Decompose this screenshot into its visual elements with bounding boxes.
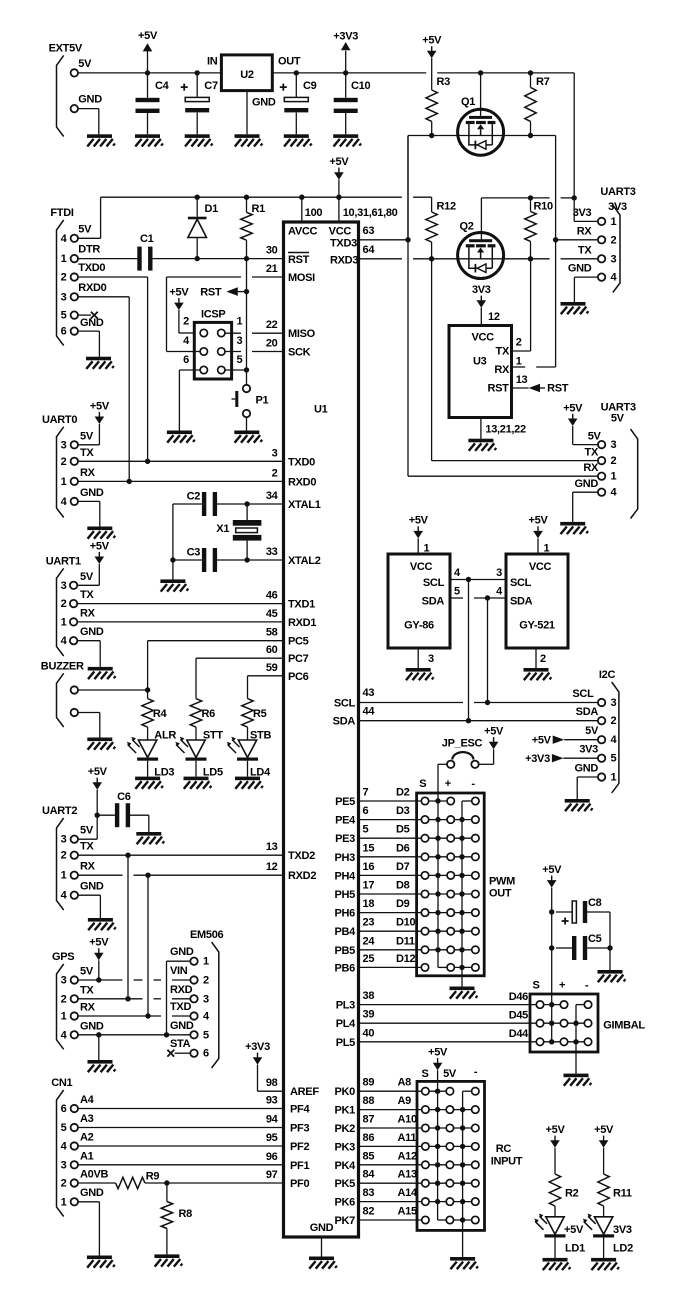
junction dot R10 on source line <box>528 256 533 261</box>
svg-text:UART3: UART3 <box>600 186 635 198</box>
svg-text:+5V: +5V <box>529 515 549 527</box>
svg-text:GND: GND <box>310 1222 334 1234</box>
ground GPS <box>88 1060 116 1072</box>
svg-text:PB5: PB5 <box>335 945 356 957</box>
svg-text:LD2: LD2 <box>613 1242 633 1254</box>
svg-text:18: 18 <box>363 898 375 910</box>
svg-text:UART2: UART2 <box>42 805 77 817</box>
svg-text:GY-521: GY-521 <box>519 620 555 632</box>
junction dot Q1 gate on rail <box>478 70 483 75</box>
svg-text:23: 23 <box>363 917 375 929</box>
wire UART1 GND to ground <box>77 640 100 642</box>
wire ICSP6 to ground <box>179 369 200 371</box>
junction dot XTAL1 at X1 <box>244 501 249 506</box>
wire UART2 GND to ground <box>78 894 100 896</box>
svg-text:5V: 5V <box>585 725 599 737</box>
svg-text:58: 58 <box>266 627 278 639</box>
wire Q1 source corner down at x555 <box>555 136 557 368</box>
wire ICSP5 to R1 column <box>225 369 247 371</box>
junction dot rail at C7 <box>195 70 200 75</box>
svg-text:UART0: UART0 <box>42 414 77 426</box>
svg-text:TXD0: TXD0 <box>288 456 315 468</box>
svg-text:Q2: Q2 <box>460 221 474 233</box>
svg-text:R5: R5 <box>253 708 267 720</box>
svg-text:84: 84 <box>363 1169 376 1181</box>
svg-text:LD1: LD1 <box>565 1242 585 1254</box>
svg-text:+5V: +5V <box>564 1224 584 1236</box>
svg-text:INPUT: INPUT <box>491 1155 523 1167</box>
svg-text:C9: C9 <box>303 80 317 92</box>
junction dot SCL bus <box>466 577 471 582</box>
wire PWM minus bus to ground <box>461 801 463 987</box>
svg-text:12: 12 <box>488 311 500 323</box>
svg-text:GND: GND <box>78 94 102 106</box>
junction dot C5 tap <box>549 945 554 950</box>
ground EXT5V <box>87 134 115 146</box>
junction dot GPS GND at flag column <box>96 1032 101 1037</box>
svg-text:RX: RX <box>80 607 96 619</box>
wire P1 to ground <box>246 417 248 430</box>
svg-text:UART1: UART1 <box>46 555 81 567</box>
svg-text:PL3: PL3 <box>336 1000 355 1012</box>
junction dot ICSP5 on R1 column <box>244 367 249 372</box>
svg-text:3: 3 <box>496 567 502 579</box>
svg-text:A10: A10 <box>398 1114 417 1126</box>
PWM header row D9 <box>425 912 475 914</box>
wire R10 column down to U3 TX <box>530 259 532 351</box>
ground UART0 <box>87 527 115 539</box>
ground U3 <box>468 439 496 451</box>
svg-text:A14: A14 <box>398 1187 418 1199</box>
svg-text:S: S <box>419 778 426 790</box>
svg-text:86: 86 <box>363 1132 375 1144</box>
wire C6 to ground <box>128 814 149 816</box>
ground BUZZER <box>87 738 115 750</box>
svg-text:PK3: PK3 <box>335 1141 356 1153</box>
svg-text:A4: A4 <box>80 1094 95 1106</box>
svg-text:3: 3 <box>611 253 617 265</box>
svg-text:R11: R11 <box>613 1188 632 1200</box>
svg-text:SCK: SCK <box>288 347 311 359</box>
svg-text:1: 1 <box>611 772 617 784</box>
svg-text:6: 6 <box>61 1103 67 1115</box>
ground U2 <box>235 134 263 146</box>
svg-text:U1: U1 <box>314 404 328 416</box>
ground LD1 <box>543 1258 571 1270</box>
wire CN1 GND to ground <box>78 1201 99 1203</box>
wire U3 RX to x555 column <box>512 366 526 368</box>
junction dot GPS TX riser <box>125 996 130 1001</box>
junction dot buzzer R4 <box>145 687 150 692</box>
svg-text:TXD1: TXD1 <box>288 599 315 611</box>
svg-text:GND: GND <box>80 487 104 499</box>
svg-text:PK1: PK1 <box>335 1105 356 1117</box>
ground LD3 <box>135 777 163 789</box>
svg-text:D6: D6 <box>396 842 410 854</box>
svg-text:D5: D5 <box>396 824 410 836</box>
svg-text:RST: RST <box>288 254 310 266</box>
svg-text:5: 5 <box>237 354 243 366</box>
RC INPUT header row A11 <box>425 1145 475 1147</box>
LED LD1 <box>534 1214 565 1238</box>
svg-text:TXD: TXD <box>170 1001 191 1013</box>
svg-text:S: S <box>532 980 539 992</box>
svg-text:5V: 5V <box>80 571 94 583</box>
wire +5V to ICSP pin2 <box>178 310 180 333</box>
junction dot R7 on Q1 source line <box>528 133 533 138</box>
svg-text:A13: A13 <box>398 1169 417 1181</box>
svg-text:D45: D45 <box>509 1010 528 1022</box>
PWM header row D11 <box>425 949 475 951</box>
wire MISO line ICSP1 to U1 <box>225 332 241 334</box>
junction dot C6 tap <box>95 813 100 818</box>
svg-text:P1: P1 <box>256 395 269 407</box>
svg-text:SCL: SCL <box>572 688 594 700</box>
svg-text:RST: RST <box>547 382 569 394</box>
svg-text:+5V: +5V <box>329 156 349 168</box>
pin 1 of BUZZER <box>71 686 78 693</box>
svg-text:A9: A9 <box>398 1095 412 1107</box>
svg-text:SCL: SCL <box>423 577 445 589</box>
svg-text:5: 5 <box>454 585 460 597</box>
PWM header row D10 <box>425 930 475 932</box>
svg-text:C5: C5 <box>588 933 602 945</box>
svg-text:1: 1 <box>203 956 209 968</box>
wire +5V to R2 <box>554 1148 556 1174</box>
svg-text:20: 20 <box>266 338 278 350</box>
svg-text:PC6: PC6 <box>288 671 309 683</box>
svg-text:GND: GND <box>80 1020 104 1032</box>
junction dot AVCC on +5V rail <box>299 195 304 200</box>
svg-text:95: 95 <box>266 1132 278 1144</box>
svg-text:88: 88 <box>363 1095 375 1107</box>
RC INPUT header row A13 <box>425 1182 475 1184</box>
wire SCK line ICSP3 to U1 <box>225 351 241 353</box>
svg-text:R12: R12 <box>437 201 456 213</box>
svg-text:R7: R7 <box>536 76 550 88</box>
junction dot TXD0 riser <box>145 459 150 464</box>
svg-text:5: 5 <box>61 310 67 322</box>
svg-text:+: + <box>559 980 565 992</box>
svg-text:5V: 5V <box>80 825 94 837</box>
svg-text:3: 3 <box>61 834 67 846</box>
junction dot SCL line <box>485 700 490 705</box>
svg-text:A11: A11 <box>398 1132 417 1144</box>
wire A0VB to R9 <box>78 1182 116 1184</box>
wire SDA bus riser down <box>487 598 489 703</box>
svg-text:TX: TX <box>578 244 592 256</box>
svg-text:5V: 5V <box>443 1068 457 1080</box>
svg-text:SDA: SDA <box>576 706 599 718</box>
svg-text:MOSI: MOSI <box>288 272 315 284</box>
junction dot R1 on RST line <box>244 256 249 261</box>
svg-text:2: 2 <box>272 467 278 479</box>
wire GPS GND to ground <box>98 1035 100 1060</box>
svg-text:25: 25 <box>363 953 375 965</box>
svg-text:R8: R8 <box>179 1208 193 1220</box>
svg-text:SDA: SDA <box>422 595 445 607</box>
PWM header row D6 <box>425 856 475 858</box>
ground C5 <box>598 970 626 982</box>
svg-text:2: 2 <box>61 1178 67 1190</box>
svg-text:IN: IN <box>207 55 218 67</box>
junction dot x555 at UART3-3V3 RX row <box>553 237 558 242</box>
junction dot rail at C9 <box>294 70 299 75</box>
svg-text:+5V: +5V <box>484 726 504 738</box>
svg-text:3: 3 <box>237 335 243 347</box>
svg-text:R10: R10 <box>534 201 553 213</box>
svg-text:+3V3: +3V3 <box>245 1041 270 1053</box>
svg-text:3: 3 <box>61 439 67 451</box>
svg-text:3: 3 <box>428 653 434 665</box>
svg-text:85: 85 <box>363 1150 375 1162</box>
junction dot RXD2 GPS riser <box>145 873 150 878</box>
svg-text:+5V: +5V <box>428 1047 448 1059</box>
wire U3 TX up to Q2 source line <box>512 350 531 352</box>
junction dot R3 on Q1 source line <box>429 133 434 138</box>
ground UART1 <box>88 667 116 679</box>
svg-text:GPS: GPS <box>52 951 74 963</box>
header RC INPUT box <box>417 1081 485 1230</box>
junction dot rail at C10 <box>343 70 348 75</box>
wire +3V3 to U1 AREF <box>257 1065 259 1092</box>
svg-text:+5V: +5V <box>532 735 552 747</box>
svg-text:GND: GND <box>80 1187 104 1199</box>
wire BUZZER to PC5 line <box>78 689 148 691</box>
svg-text:1: 1 <box>61 476 67 488</box>
svg-text:FTDI: FTDI <box>50 207 73 219</box>
svg-text:R1: R1 <box>252 203 266 215</box>
wire gate line of Q2 <box>481 197 549 199</box>
PWM header row D5 <box>425 837 475 839</box>
wire GPS 5V row to EM506 VIN <box>99 979 123 981</box>
ground PWM OUT <box>450 987 478 999</box>
svg-text:2: 2 <box>61 598 67 610</box>
svg-text:PC7: PC7 <box>288 653 309 665</box>
wire +5V to R11 <box>603 1148 605 1174</box>
svg-text:+: + <box>445 778 451 790</box>
svg-text:1: 1 <box>516 355 522 367</box>
wire 3V3 to U3 VCC <box>480 308 482 326</box>
ground LD2 <box>591 1258 619 1270</box>
svg-text:S: S <box>421 1068 428 1080</box>
wire SCL line from U1 <box>359 702 464 704</box>
svg-text:U2: U2 <box>240 69 254 81</box>
svg-text:63: 63 <box>363 225 375 237</box>
svg-text:A3: A3 <box>80 1113 94 1125</box>
svg-text:3V3: 3V3 <box>472 284 491 296</box>
wire PC5 to buzzer junction <box>148 640 284 642</box>
svg-text:15: 15 <box>363 842 375 854</box>
junction dot gate line at 3V3 riser <box>572 195 577 200</box>
svg-text:87: 87 <box>363 1114 375 1126</box>
wire GIMBAL minus bus to ground <box>575 1005 577 1074</box>
svg-text:3V3: 3V3 <box>579 744 598 756</box>
svg-text:PF0: PF0 <box>290 1178 309 1190</box>
pin 5 GND of FTDI no-connect <box>71 311 78 318</box>
svg-text:97: 97 <box>266 1169 278 1181</box>
svg-text:43: 43 <box>363 687 375 699</box>
svg-text:A12: A12 <box>398 1150 417 1162</box>
svg-text:3V3: 3V3 <box>613 1224 632 1236</box>
ground C7 <box>185 134 213 146</box>
svg-text:13: 13 <box>266 841 278 853</box>
GIMBAL header row D44 <box>540 1041 588 1043</box>
wire GPS TX row to EM506 RXD <box>78 998 143 1000</box>
junction dot TXD3 line <box>405 237 410 242</box>
ground I2C <box>565 799 593 811</box>
svg-text:D1: D1 <box>205 203 219 215</box>
wire UART3-5V TX row <box>432 460 598 462</box>
svg-text:BUZZER: BUZZER <box>41 660 84 672</box>
svg-text:94: 94 <box>266 1114 279 1126</box>
svg-text:XTAL2: XTAL2 <box>288 555 321 567</box>
svg-text:RX: RX <box>80 861 96 873</box>
svg-text:PH4: PH4 <box>335 870 357 882</box>
PWM header row D8 <box>425 893 475 895</box>
wire A3 to U1 PF3 <box>78 1127 284 1129</box>
header PWM OUT box <box>417 793 485 976</box>
svg-text:1: 1 <box>61 616 67 628</box>
svg-text:64: 64 <box>363 244 376 256</box>
svg-text:3: 3 <box>61 1159 67 1171</box>
GIMBAL header row D46 <box>540 1004 564 1006</box>
svg-text:OUT: OUT <box>278 55 301 67</box>
svg-text:PK6: PK6 <box>335 1197 356 1209</box>
svg-text:EM506: EM506 <box>190 929 224 941</box>
svg-text:PK2: PK2 <box>335 1123 356 1135</box>
svg-text:R6: R6 <box>202 708 216 720</box>
svg-text:38: 38 <box>363 990 375 1002</box>
svg-text:TX: TX <box>80 589 94 601</box>
wire JP_ESC right to +5V <box>479 763 494 765</box>
svg-text:GND: GND <box>568 263 592 275</box>
chip U1 ATmega <box>284 222 359 1237</box>
svg-text:13: 13 <box>516 374 528 386</box>
wire UART0 RX to U1 RXD0 <box>78 480 284 482</box>
PWM header row D2 <box>425 800 451 802</box>
svg-text:C2: C2 <box>187 490 201 502</box>
svg-text:A0VB: A0VB <box>80 1169 108 1181</box>
svg-text:TX: TX <box>80 841 94 853</box>
svg-text:D2: D2 <box>396 787 410 799</box>
ground RC INPUT <box>450 1257 478 1269</box>
svg-text:D11: D11 <box>396 935 415 947</box>
svg-text:C8: C8 <box>588 897 602 909</box>
svg-text:3: 3 <box>61 291 67 303</box>
net arrow RST at U3 <box>512 387 529 389</box>
wire R10 between gate line and source line <box>530 198 532 212</box>
svg-text:6: 6 <box>183 354 189 366</box>
svg-text:RXD2: RXD2 <box>288 870 316 882</box>
wire TXD3 from U1 <box>359 239 409 241</box>
PWM header row D3 <box>425 819 475 821</box>
svg-text:10,31,61,80: 10,31,61,80 <box>343 207 398 219</box>
ground C4 <box>135 134 163 146</box>
svg-text:+5V: +5V <box>90 400 110 412</box>
svg-text:PE3: PE3 <box>335 833 355 845</box>
svg-text:GND: GND <box>574 763 598 775</box>
junction dot R9 R8 <box>164 1180 169 1185</box>
svg-text:RXD3: RXD3 <box>330 255 358 267</box>
svg-text:5: 5 <box>363 824 369 836</box>
wire 3V3 rail from U2 OUT <box>272 72 426 74</box>
svg-text:OUT: OUT <box>489 888 512 900</box>
ground crystal <box>160 579 188 591</box>
svg-text:PE4: PE4 <box>335 815 356 827</box>
svg-text:PK7: PK7 <box>335 1215 356 1227</box>
svg-text:R9: R9 <box>146 1171 160 1183</box>
svg-text:+5V: +5V <box>138 30 158 42</box>
ground GIMBAL <box>564 1074 592 1086</box>
wire UART2RX riser <box>147 875 149 1016</box>
svg-text:13,21,22: 13,21,22 <box>485 424 526 436</box>
svg-text:PE5: PE5 <box>335 796 355 808</box>
ground U1 <box>309 1257 337 1269</box>
LED LD2 <box>583 1214 614 1238</box>
wire C2 left leg down <box>172 504 174 581</box>
ground UART3-5V <box>560 522 588 534</box>
svg-text:5: 5 <box>611 753 617 765</box>
PWM header row D12 <box>438 966 451 968</box>
pin 2 of BUZZER <box>71 709 78 716</box>
wire GPS GND row to EM506 GND <box>78 1034 190 1036</box>
junction dot D1 on RST line <box>195 256 200 261</box>
svg-text:CN1: CN1 <box>51 1077 72 1089</box>
ground UART3-3V3 <box>561 302 589 314</box>
svg-text:PF1: PF1 <box>290 1160 309 1172</box>
svg-text:17: 17 <box>363 880 375 892</box>
svg-text:83: 83 <box>363 1187 375 1199</box>
wire +5V rail FTDI area <box>101 196 402 198</box>
svg-text:1: 1 <box>611 471 617 483</box>
wire RC minus bus to ground <box>462 1091 464 1257</box>
ground R8 <box>154 1254 182 1266</box>
wire FTDI pin6 to ground <box>78 330 99 332</box>
svg-text:RXD0: RXD0 <box>78 282 106 294</box>
svg-text:3: 3 <box>611 439 617 451</box>
ground CN1 <box>87 1256 115 1268</box>
junction dot C3 left leg <box>170 557 175 562</box>
junction dot GPS RX riser <box>145 1013 150 1018</box>
junction dot C5 right leg <box>607 945 612 950</box>
junction dot +5V rail at C4 <box>145 70 150 75</box>
pushbutton P1 <box>243 385 250 392</box>
GIMBAL header row D45 <box>540 1022 588 1024</box>
wire UART2 RX to U1 RXD2 <box>78 874 123 876</box>
svg-text:5V: 5V <box>611 413 625 425</box>
svg-text:5V: 5V <box>80 430 94 442</box>
ground C6 <box>136 832 164 844</box>
junction dot RST arrow on R1 column <box>244 289 249 294</box>
svg-text:SDA: SDA <box>333 716 356 728</box>
svg-text:D46: D46 <box>509 991 528 1003</box>
svg-text:D10: D10 <box>396 917 415 929</box>
svg-text:A2: A2 <box>80 1132 94 1144</box>
wire A1 to U1 PF1 <box>78 1164 284 1166</box>
wire BUZZER pin2 to ground <box>78 712 100 714</box>
svg-text:1: 1 <box>61 253 67 265</box>
svg-text:RX: RX <box>80 467 96 479</box>
svg-text:93: 93 <box>266 1095 278 1107</box>
svg-text:3: 3 <box>272 447 278 459</box>
svg-text:GND: GND <box>574 478 598 490</box>
svg-text:+5V: +5V <box>409 515 429 527</box>
junction dot SDA bus <box>485 595 490 600</box>
svg-text:82: 82 <box>363 1206 375 1218</box>
svg-text:C4: C4 <box>155 80 170 92</box>
svg-text:VIN: VIN <box>170 965 188 977</box>
